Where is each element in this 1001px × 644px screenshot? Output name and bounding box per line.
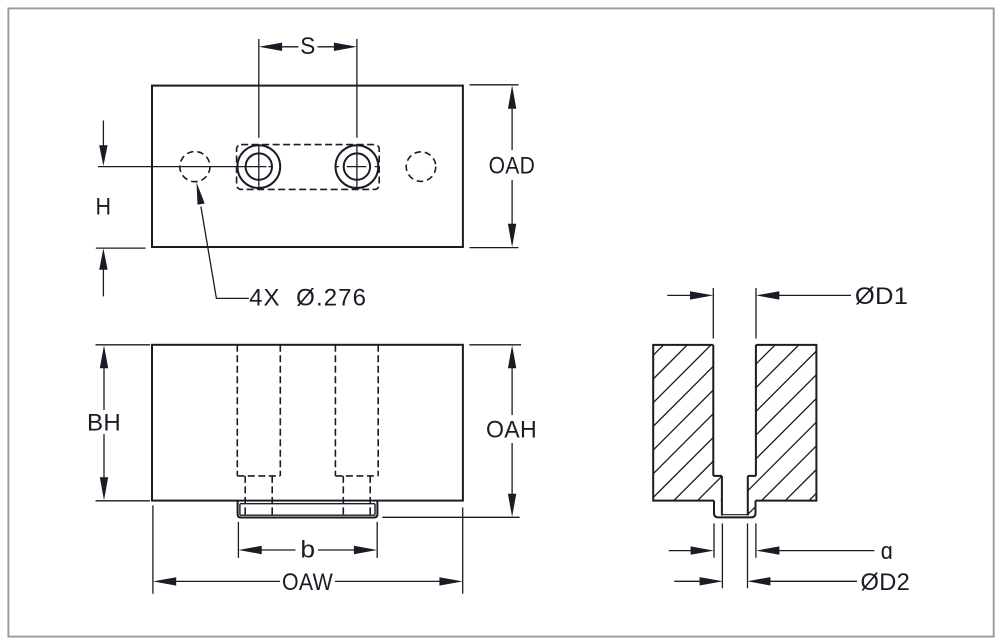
dimension BH extension lines: [96, 345, 151, 501]
front view outline: [152, 345, 463, 501]
dimension H lower arrow line: [102, 269, 104, 296]
dimension b line: [261, 549, 355, 551]
dimension b left arrow: [238, 546, 261, 554]
dimension OAH top arrow: [508, 345, 516, 368]
dimension H upper arrow: [99, 145, 107, 166]
hole A outer circle: [237, 145, 280, 188]
dimension H upper arrow line: [102, 121, 104, 147]
hatching left: [653, 345, 722, 518]
dimension BH line: [103, 368, 105, 479]
hidden thread A: [245, 476, 272, 516]
dimension D1 left arrow: [690, 291, 713, 299]
svg-text:OAD: OAD: [489, 152, 536, 179]
dimension b right arrow: [354, 546, 377, 554]
tongue outline section: [714, 501, 756, 518]
horizontal centerline through left circle and hole A: [98, 166, 273, 168]
dimension OAD bottom arrow: [508, 224, 516, 248]
svg-text:ØD2: ØD2: [861, 569, 911, 596]
dimension OAD extension lines: [470, 85, 519, 248]
dimension a extension lines: [714, 524, 756, 558]
dimension OAD line: [511, 108, 513, 225]
thread hole walls: [722, 476, 748, 516]
dimension OAH line: [511, 368, 513, 495]
dimension D2 extension lines: [722, 524, 747, 589]
dimension BH bottom arrow: [100, 477, 108, 500]
dimension D1 line: [667, 294, 851, 296]
dimension OAW right arrow: [439, 577, 462, 585]
dimension OAW extension lines: [153, 505, 463, 593]
dashed corner circle right: [406, 152, 436, 182]
dimension OAH bottom arrow: [508, 494, 516, 517]
dimension OAW line: [175, 580, 440, 582]
svg-text:OAH: OAH: [486, 416, 537, 443]
vertical centerline hole B: [356, 39, 358, 189]
svg-text:BH: BH: [87, 410, 121, 437]
leader arrowhead: [197, 182, 205, 205]
dimension OAW left arrow: [153, 577, 176, 585]
tongue outline front: [238, 501, 378, 518]
tongue chamfer lines front: [240, 504, 375, 516]
dimension a left arrow: [691, 546, 714, 554]
vertical centerline hole A: [258, 39, 260, 189]
hidden counterbore B: [335, 345, 378, 476]
counterbore walls: [713, 345, 756, 476]
dimension OAH extension lines: [382, 345, 521, 518]
svg-text:4X Ø.276: 4X Ø.276: [249, 285, 367, 312]
svg-text:ɑ: ɑ: [881, 538, 893, 565]
hole B outer circle: [336, 145, 379, 188]
dimension S line: [281, 46, 334, 48]
svg-text:S: S: [300, 33, 315, 60]
hole A inner circle: [246, 153, 272, 179]
dimension a line: [669, 550, 875, 552]
leader line for 4X holes: [201, 207, 249, 299]
hidden counterbore A: [237, 345, 280, 476]
dimension D1 extension lines: [713, 288, 756, 339]
dimension S left arrow: [259, 43, 282, 51]
dashed slot outline: [237, 145, 380, 190]
svg-text:ØD1: ØD1: [855, 283, 909, 310]
dimension D1 right arrow: [756, 291, 779, 299]
svg-text:b: b: [300, 537, 315, 564]
hatching right: [748, 345, 817, 518]
hidden thread B: [343, 476, 370, 516]
dimension a right arrow: [756, 546, 779, 554]
dashed corner circle left: [180, 152, 210, 182]
dimension S right arrow: [334, 43, 357, 51]
dimension OAD top arrow: [508, 85, 516, 109]
hole B inner circle: [344, 153, 370, 179]
dimension BH top arrow: [100, 345, 108, 368]
dimension D2 left arrow: [700, 577, 723, 585]
svg-text:OAW: OAW: [282, 569, 333, 596]
top view outline: [152, 86, 463, 247]
dimension D2 line: [674, 580, 857, 582]
dimension H lower arrow: [99, 248, 107, 269]
horizontal centerline hole B: [335, 166, 380, 168]
dimension b extension lines: [238, 522, 377, 558]
dimension H bottom extension line: [96, 247, 146, 249]
section body outline: [653, 345, 816, 501]
svg-text:H: H: [96, 193, 112, 220]
dimension D2 right arrow: [747, 577, 770, 585]
